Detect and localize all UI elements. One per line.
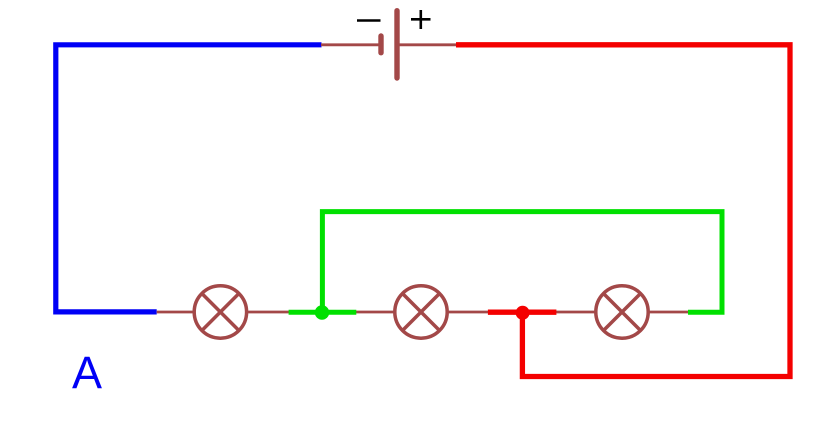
lamp L3 xyxy=(596,286,648,338)
node A2 green junction dot xyxy=(315,305,329,319)
wire red from battery positive around right side to node B xyxy=(456,45,790,377)
battery B1 long plate (positive) xyxy=(394,11,399,78)
wire green stub through node A2 xyxy=(289,310,357,315)
label plus sign xyxy=(411,10,431,29)
node B red junction dot xyxy=(516,306,530,320)
wire brown top left (battery negative lead) xyxy=(321,43,379,46)
battery B1 short plate (negative) xyxy=(378,36,383,53)
lamp L2 xyxy=(395,286,447,338)
svg-text:A: A xyxy=(72,347,102,398)
lamp L1 xyxy=(194,286,246,338)
wire green bypass loop xyxy=(322,212,722,313)
wire brown bottom rail xyxy=(157,311,688,314)
wire brown top right (battery positive lead) xyxy=(397,43,457,46)
label minus sign xyxy=(357,19,381,22)
wire red stub at node B xyxy=(488,310,557,315)
wire blue from battery negative to lamp L1 xyxy=(56,45,322,312)
